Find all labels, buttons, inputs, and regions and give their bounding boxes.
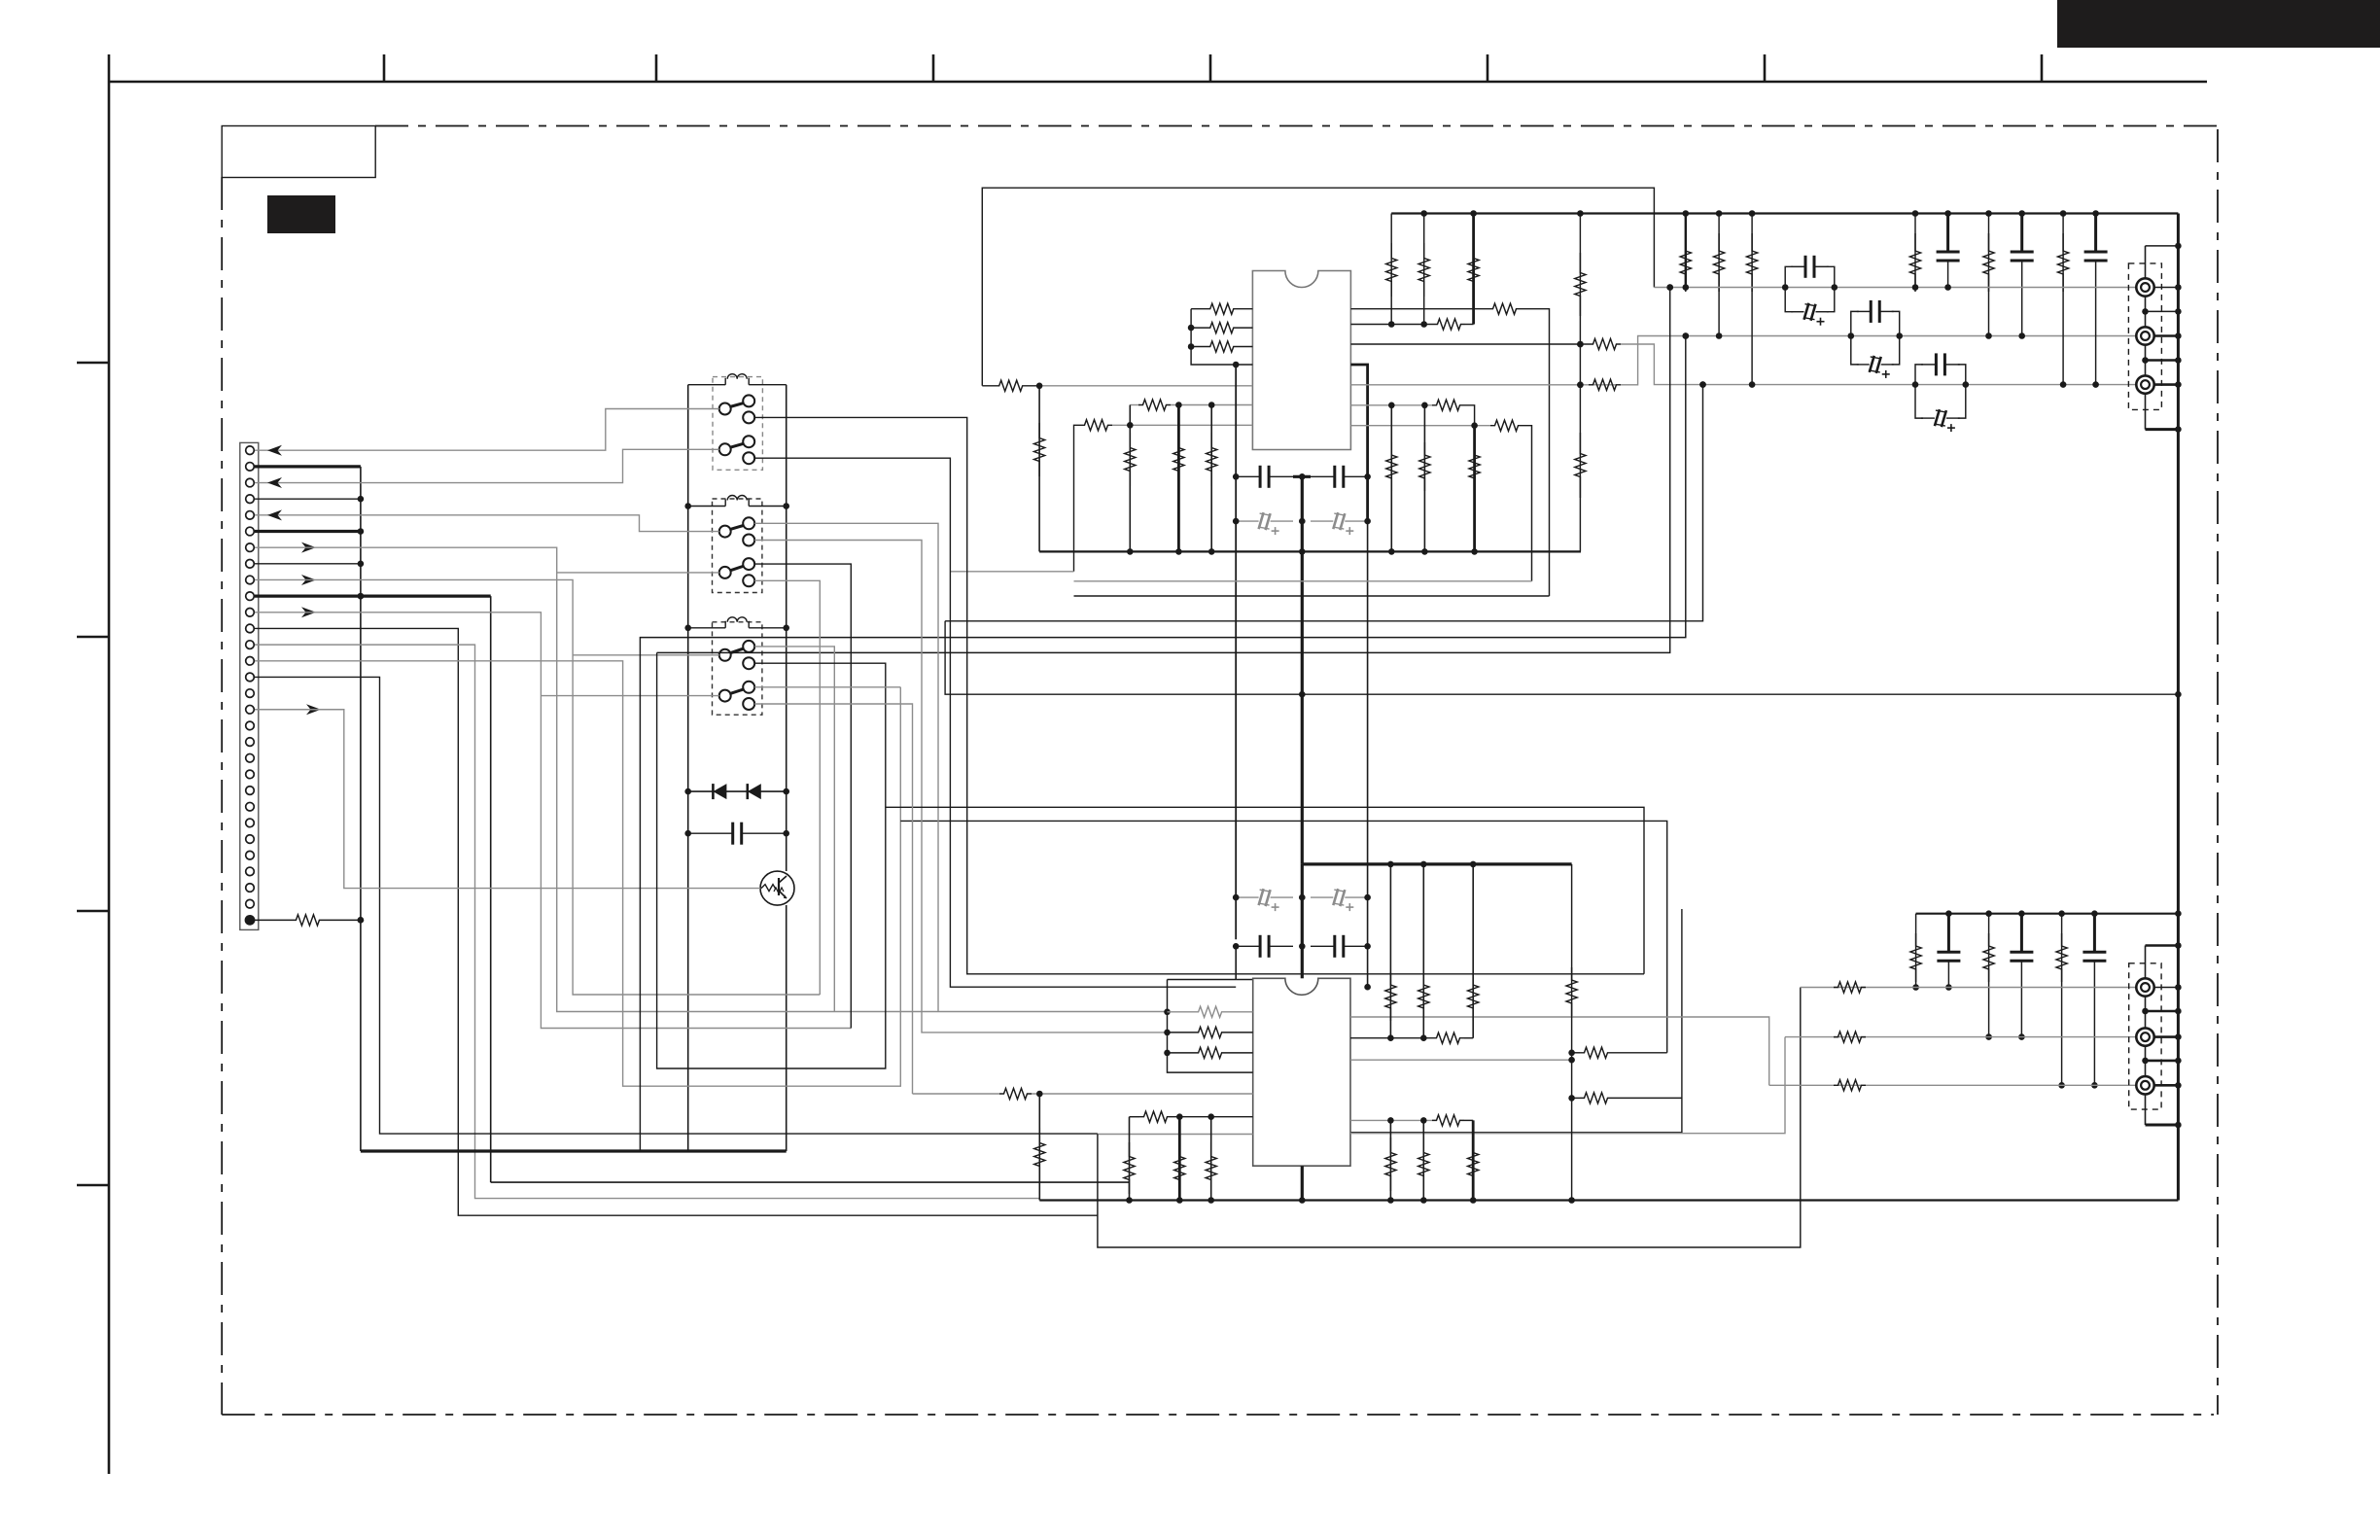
wire center column down <box>1299 518 1306 864</box>
resistor R304 column <box>1034 1094 1045 1201</box>
wire top bus U101 <box>1391 210 2178 217</box>
wire IC U301 pin row 1125 <box>913 1088 1253 1099</box>
capacitor C401 column <box>1937 914 1960 991</box>
relay K1 box <box>713 377 762 471</box>
sheet border left rule <box>108 82 111 1474</box>
capacitor C202 column <box>2011 214 2034 336</box>
resistor R101 <box>1191 303 1252 314</box>
board outline dash-dot bottom edge <box>222 1414 2214 1416</box>
wire relay K3A NC run <box>657 652 1644 1068</box>
wire pin 4 to control bus <box>255 498 361 500</box>
wire pin 17 to transistor base <box>255 704 760 888</box>
resistor R305 column <box>1124 1117 1135 1201</box>
jack ground taps B <box>2142 984 2182 1128</box>
wire relay K2A NO run <box>754 523 938 1011</box>
resistor R316 hook row <box>1572 1093 1682 1103</box>
resistor R314 column <box>1566 864 1577 1204</box>
wire output loop to jack row 1 <box>982 188 1654 391</box>
relay coil bus right vertical <box>786 385 787 1151</box>
resistor R315 hook row <box>1568 1047 1666 1058</box>
wire left column down 2 <box>1236 946 1253 979</box>
capacitor C104 polar <box>1311 512 1371 535</box>
wire relay K3B NC run <box>754 704 912 1094</box>
wire pin 9 to relay K3A common <box>255 575 820 995</box>
resistor R102 <box>1191 323 1252 333</box>
board outline dash-dot top edge <box>375 125 2218 127</box>
wire relay K2A NC run <box>754 541 1167 1032</box>
capacitor C203 column <box>2084 214 2108 385</box>
resistor R112 column <box>1419 405 1430 552</box>
wire jack row3 to relay feed <box>945 381 1706 620</box>
capacitor C102 <box>1311 466 1371 488</box>
wire loop to jack row B1 <box>1098 988 1801 1248</box>
wire relay K1B common to pin 3 <box>255 449 719 488</box>
wire IC U101 pin row 375 cap branch <box>1350 365 1367 521</box>
wire right ground bus <box>2177 214 2180 914</box>
transistor Q801 (digital) <box>760 871 794 905</box>
relay K1 coil <box>688 374 787 385</box>
wire thick bus over U301 <box>1299 861 1572 950</box>
wire IC U101 pin row 416 <box>1130 400 1252 410</box>
wire IC U101 pin row 437 <box>1074 420 1253 572</box>
capacitor C303 <box>1233 935 1293 958</box>
capacitor C201 column <box>1937 214 1960 288</box>
relay K2 switch A <box>719 517 755 545</box>
board outline dash-dot right edge <box>2217 129 2219 1415</box>
wire pin 14 nest run <box>255 661 900 1086</box>
wire relay K3A NO run <box>754 647 834 1012</box>
wire IC U101 pin row 417 <box>1350 400 1474 426</box>
resistor R830 pin30 to bus <box>255 915 364 926</box>
jack block J201 dashed box <box>2128 263 2161 410</box>
relay K2 box <box>713 499 762 593</box>
wire jack row 2 dots <box>1683 332 2026 339</box>
capacitor C103 polar <box>1233 512 1293 535</box>
wire IC U301 pin row 1067 <box>1350 1032 1473 1043</box>
resistor R302 <box>1168 1027 1253 1037</box>
wire IC U101 pin row 396 to jack row 2 <box>1350 336 2136 391</box>
resistor R310 column <box>1468 864 1479 1038</box>
wire IC U301 pin row 1148 <box>1130 1111 1253 1122</box>
resistor R104 column <box>1125 405 1136 552</box>
wire relay K2B NC run <box>754 580 820 995</box>
resistor R402 column <box>1983 914 1994 1040</box>
wire relay K1A NC run <box>754 417 1666 1052</box>
diodes D801 D802 on relay supply <box>684 784 789 799</box>
wire pin 15 nest run <box>255 677 1098 1134</box>
sheet border top rule <box>109 54 2207 82</box>
wire right column down <box>1367 521 1369 946</box>
connector CN801 30-pin header <box>240 442 259 929</box>
jack ground taps <box>2142 284 2182 433</box>
relay K3 switch B <box>719 682 755 710</box>
wire ground bus under U301 <box>1039 1197 2178 1204</box>
wire jack pin column <box>2146 243 2182 430</box>
wire center column to ground <box>1301 946 1304 1200</box>
resistor R204 column <box>1909 214 1920 293</box>
jack J201 L <box>2136 278 2153 296</box>
wire relay K2A common to pin 5 <box>255 509 719 531</box>
wire relay K1A common to pin 1 <box>255 409 719 456</box>
wire right ground bus lower <box>2177 914 2180 1201</box>
capacitor C403 column <box>2082 914 2106 1089</box>
jack J201 C <box>2136 327 2153 344</box>
resistor R309 column <box>1418 864 1429 1038</box>
feedback RC box Z202 <box>1848 300 1903 378</box>
jack J301 R <box>2136 1076 2153 1094</box>
wire bottom bus right <box>1916 910 2182 917</box>
wire jack row 1 <box>1654 284 2136 291</box>
resistor R109 column <box>1418 214 1429 325</box>
black title bar top-right <box>2057 0 2380 48</box>
resistor R308 column <box>1385 864 1396 1038</box>
relay coil bus left <box>687 385 689 1151</box>
wire jack row B1 <box>1801 982 2136 993</box>
relay K2 switch B <box>719 558 755 586</box>
black label box <box>267 195 335 233</box>
resistor R307 column <box>1206 1117 1216 1201</box>
wire pin 6 to control bus <box>255 530 361 533</box>
wire ground bus under U101 <box>1039 548 1581 555</box>
capacitor C302 polar <box>1311 889 1371 911</box>
wire jack row B3 <box>1769 1080 2136 1091</box>
wire pin 7 to relay K2B common <box>255 542 1168 1012</box>
wire jack row1 to relay feed <box>657 284 1673 652</box>
wire cap center column 2 <box>1299 864 1306 946</box>
resistor R110 column <box>1468 214 1479 325</box>
resistor R306 column <box>1174 1117 1185 1201</box>
op-amp IC U301 (lower) <box>1253 978 1350 1166</box>
op-amp IC U101 (upper) <box>1252 271 1350 450</box>
relay K3 box <box>713 622 762 715</box>
resistor R108 column <box>1386 214 1397 325</box>
wire pin 11 to relay K3B common <box>255 607 851 1028</box>
feedback RC box Z203 <box>1912 353 1969 432</box>
resistor R312 column <box>1418 1120 1429 1200</box>
feedback RC box Z201 <box>1782 256 1837 326</box>
relay K2 coil <box>684 496 789 509</box>
wire IC U101 pin row 317 <box>1350 303 1549 596</box>
resistor R301 <box>1168 1006 1253 1017</box>
wire relay K3B NO run <box>754 686 900 688</box>
resistor R206 column <box>2058 214 2069 385</box>
board reference title box <box>222 126 375 178</box>
resistor R106 column <box>1207 405 1217 552</box>
wire pin 8 to control bus <box>255 563 361 565</box>
wire run row437 left <box>1074 580 1532 582</box>
resistor R113 column <box>1469 426 1480 552</box>
wire IC U101 pin row 356 to jack row 3 <box>1350 338 2136 384</box>
wire IC U301 pin row 1152 <box>1350 1115 1473 1126</box>
resistor R313 column <box>1468 1120 1479 1200</box>
wire relay K1B NC run <box>754 458 1682 1133</box>
control bus to relay return thick <box>361 1149 787 1152</box>
resistor R205 column <box>1983 214 1994 336</box>
wire cap center column <box>1293 473 1311 521</box>
resistor R311 column <box>1385 1120 1396 1200</box>
resistor R203 column <box>1747 214 1758 385</box>
resistor R201 column <box>1680 214 1691 293</box>
wire IC U301 pin row 1048 <box>1350 1017 1769 1085</box>
resistor R114 R115 column <box>1575 214 1586 552</box>
wire jack pin column B <box>2146 942 2182 1125</box>
capacitor C304 <box>1311 935 1371 958</box>
relay K1 switch A <box>719 395 755 423</box>
resistor R303 <box>1168 1047 1253 1058</box>
wire from row 437 to relay area <box>950 571 1073 573</box>
resistor R401 column <box>1910 914 1921 991</box>
wire relay K2B NO run <box>754 564 851 1028</box>
wire pin 2 to control bus <box>255 465 361 468</box>
wire right column down 2 <box>1364 946 1371 990</box>
wire jack row B2 <box>1785 1032 2136 1042</box>
capacitor C402 column <box>2010 914 2033 1040</box>
relay K1 switch B <box>719 436 755 464</box>
resistor R403 column <box>2056 914 2067 1089</box>
relay K3 coil <box>684 617 789 631</box>
sheet border top tick marks <box>384 54 2042 82</box>
wire pin 13 nest run <box>255 645 1039 1198</box>
wire pin 10 thick run <box>255 593 1130 1182</box>
relay K3 switch A <box>719 641 755 669</box>
resistor R103 <box>1191 341 1252 352</box>
wire run row317 left <box>945 596 2182 698</box>
capacitor C301 polar <box>1233 889 1293 911</box>
jack J201 R <box>2136 375 2153 393</box>
resistor R107 column <box>1034 386 1045 552</box>
resistor R111 column <box>1386 405 1397 552</box>
resistor R202 column <box>1714 214 1725 336</box>
wire IC U101 pin row 333 <box>1350 319 1473 330</box>
wire jack row2 to relay feed <box>640 332 1689 1151</box>
resistor R105 column <box>1173 405 1184 552</box>
jack J301 L <box>2136 978 2153 996</box>
jack J301 C <box>2136 1028 2153 1045</box>
wire left column down <box>1235 365 1237 939</box>
wire jack row 3 dots <box>1699 381 2099 388</box>
wire pin 12 nest run <box>255 628 1098 1215</box>
wire IC U101 pin row 437 right <box>1350 420 1531 581</box>
wire IC U301 pin row 1090 <box>1350 1057 1575 1064</box>
capacitor C101 <box>1233 466 1293 488</box>
jack block J301 dashed box <box>2129 963 2161 1109</box>
IC U101 left input resistor frame <box>1188 309 1253 368</box>
capacitor C801 across relay bus <box>684 822 789 845</box>
control bus vertical <box>358 467 365 1151</box>
IC U301 left input resistor frame <box>1164 980 1253 1073</box>
wire IC U301 pin row 1166 <box>1098 1037 1785 1135</box>
board outline dash-dot left edge <box>221 177 223 1415</box>
sheet border left tick marks <box>77 363 109 1185</box>
